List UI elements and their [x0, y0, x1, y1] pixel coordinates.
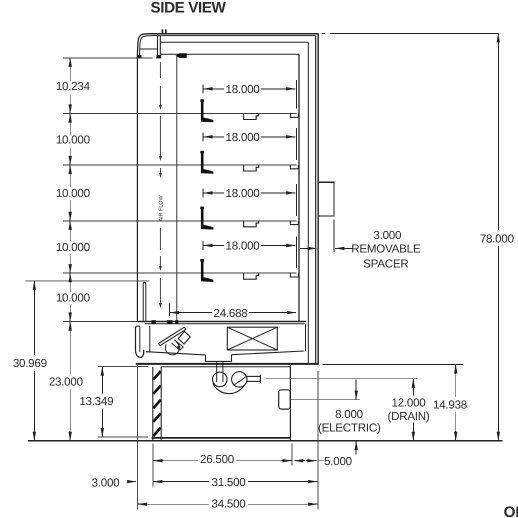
svg-text:30.969: 30.969	[13, 357, 47, 370]
shelf 2 rear channel	[290, 165, 298, 169]
shelf 3 price channel	[244, 221, 259, 227]
13.349 bottom extension	[98, 436, 148, 438]
shelf 1 price channel	[244, 114, 259, 120]
24.688 dim	[168, 304, 170, 317]
svg-text:10.000: 10.000	[56, 187, 90, 200]
svg-text:31.500: 31.500	[212, 476, 246, 489]
canopy top inner line	[153, 35, 316, 37]
78.000 top witness dash-dot	[322, 32, 326, 34]
canopy top outer line	[152, 33, 319, 35]
drain pipe verticals	[216, 361, 218, 382]
back mid wall	[307, 42, 309, 364]
fan slab	[159, 327, 187, 346]
back liner wall	[298, 54, 300, 321]
pan right wall	[305, 324, 307, 352]
svg-text:24.688: 24.688	[214, 307, 248, 320]
12.000 dim	[412, 379, 414, 389]
row line 3	[63, 220, 297, 222]
back outer wall inner line	[315, 36, 317, 364]
shelf 3 rear channel	[290, 221, 298, 225]
fan motor box	[178, 331, 190, 344]
svg-text:18.000: 18.000	[226, 83, 260, 96]
26.500 dim	[153, 460, 163, 462]
canopy base cap line	[156, 57, 161, 59]
13.349 top extension	[98, 366, 148, 368]
svg-text:AIR FLOW: AIR FLOW	[158, 195, 164, 222]
78.000 dim	[497, 33, 499, 43]
interior floor line	[137, 321, 306, 323]
3.000 leader arrow	[127, 481, 136, 483]
svg-text:3.000: 3.000	[92, 477, 120, 490]
8.000 dim (arrows outside)	[355, 380, 357, 400]
grille slot marks	[151, 320, 156, 324]
svg-text:18.000: 18.000	[226, 131, 260, 144]
front bumper	[136, 326, 144, 357]
drain leader line	[266, 378, 418, 380]
svg-text:34.500: 34.500	[212, 498, 246, 511]
fan mount bracket	[172, 340, 184, 350]
canopy nose bottom black cap	[137, 55, 141, 58]
top tick line	[63, 57, 152, 59]
bottom witness lines	[136, 365, 138, 510]
base bottom	[152, 437, 291, 439]
svg-text:18.000: 18.000	[226, 187, 260, 200]
shelf 1 bracket	[201, 100, 204, 121]
base top line	[161, 366, 290, 368]
bottom tick line	[63, 321, 137, 323]
trap chord	[233, 376, 247, 385]
svg-text:8.000: 8.000	[335, 408, 363, 421]
air flow dashed line	[159, 62, 161, 78]
front panel cap	[143, 282, 146, 321]
left chain dim line x=70	[69, 58, 71, 67]
louver strokes	[153, 371, 160, 380]
svg-text:10.000: 10.000	[56, 133, 90, 146]
svg-text:5.000: 5.000	[324, 455, 352, 468]
outlet pipe	[247, 375, 261, 377]
louver rail left	[152, 367, 154, 441]
shelf 4 bracket	[201, 260, 204, 281]
roof tick 1	[161, 29, 163, 33]
row line 2	[63, 164, 297, 166]
canopy mid line	[140, 48, 157, 50]
svg-text:10.000: 10.000	[56, 292, 90, 305]
electric box	[279, 390, 291, 409]
canopy interior line y54	[161, 53, 299, 55]
fan blade arc	[165, 342, 179, 355]
canopy nose inner curve	[139, 36, 152, 58]
base right wall	[289, 365, 291, 440]
shelf 4 price channel	[244, 273, 259, 279]
14.938 top extension	[323, 363, 464, 365]
front duct inner wall	[176, 56, 178, 322]
black wedge light deflector	[176, 53, 187, 58]
svg-text:(ELECTRIC): (ELECTRIC)	[318, 422, 381, 435]
back outer wall outer line	[317, 34, 319, 365]
svg-text:(DRAIN): (DRAIN)	[387, 410, 429, 423]
svg-text:12.000: 12.000	[392, 396, 426, 409]
canopy vertical pair black base	[157, 55, 162, 58]
svg-text:ON: ON	[504, 504, 518, 518]
canopy interior line y42	[160, 41, 308, 43]
svg-text:14.938: 14.938	[433, 399, 467, 412]
front panel joint line (30.969 extension)	[26, 280, 150, 282]
pan bottom slope left	[146, 352, 206, 355]
canopy front vertical pair	[157, 34, 159, 58]
interior floor second line	[145, 323, 305, 325]
svg-text:3.000: 3.000	[373, 229, 401, 242]
case outer bottom	[136, 363, 319, 365]
removable spacer box	[318, 182, 334, 216]
svg-text:10.234: 10.234	[56, 80, 91, 93]
svg-text:SPACER: SPACER	[363, 257, 408, 270]
row line 4	[63, 272, 297, 274]
svg-text:26.500: 26.500	[200, 453, 234, 466]
23.000 dim	[69, 322, 71, 332]
34.500 dim	[138, 503, 148, 505]
svg-text:18.000: 18.000	[226, 240, 260, 253]
pan left wall	[149, 326, 151, 352]
31.500 dim	[153, 481, 163, 483]
svg-text:10.000: 10.000	[56, 241, 90, 254]
louver rail right	[160, 367, 162, 441]
row line 1	[63, 113, 297, 115]
30.969 dim	[33, 281, 35, 291]
svg-text:REMOVABLE: REMOVABLE	[351, 243, 421, 256]
trap circle 1	[213, 372, 228, 387]
14.938 dim	[455, 364, 457, 374]
spacer dim arrows	[300, 247, 317, 249]
svg-text:23.000: 23.000	[49, 376, 83, 389]
drain sump	[206, 355, 232, 362]
5.000 dim arrows	[294, 460, 305, 462]
evaporator coil box with X	[227, 327, 277, 350]
trap circle 2	[232, 372, 247, 387]
svg-text:78.000: 78.000	[480, 232, 514, 245]
front wall	[136, 58, 138, 322]
canopy nose outer curve	[137, 34, 151, 58]
roof tick 2	[165, 29, 167, 33]
13.349 dim	[101, 367, 103, 377]
electric leader line	[291, 399, 360, 401]
shelf 1 rear channel	[290, 114, 298, 118]
ground baseline	[28, 440, 503, 442]
fan pivot dot	[177, 346, 180, 349]
svg-text:13.349: 13.349	[79, 395, 113, 408]
shelf 2 price channel	[244, 165, 259, 171]
spacer extension line	[333, 220, 335, 253]
shelf 4 rear channel	[290, 273, 298, 277]
svg-text:SIDE VIEW: SIDE VIEW	[151, 0, 227, 17]
trap bottom loop	[213, 383, 245, 393]
shelf 2 bracket	[201, 151, 204, 172]
18.000 dims rows	[202, 84, 204, 93]
shelf 3 bracket	[201, 207, 204, 228]
pan bottom slope right	[232, 351, 304, 355]
